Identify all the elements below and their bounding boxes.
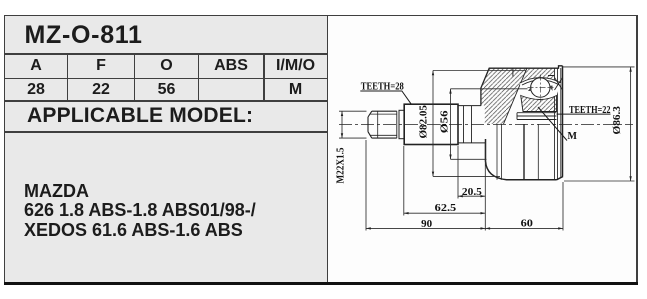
svg-text:M22X1.5: M22X1.5	[335, 148, 346, 184]
90 / 60 dim line	[366, 227, 563, 229]
centerline	[339, 123, 633, 125]
collar	[399, 110, 404, 138]
drawing panel background (right panel)	[327, 15, 637, 282]
bell face rim	[555, 68, 561, 180]
svg-text:M: M	[568, 131, 578, 142]
thread start line	[377, 111, 379, 138]
shared extension at bell back	[484, 142, 486, 231]
90 left extension	[365, 140, 367, 231]
thread minor diameter lines	[370, 114, 397, 135]
svg-text:TEETH=28: TEETH=28	[361, 81, 404, 92]
svg-text:62.5: 62.5	[435, 203, 457, 214]
svg-text:20.5: 20.5	[462, 187, 482, 198]
hatch: bell back band (between outer cone and inner sphere)	[481, 68, 527, 124]
land edge	[512, 68, 514, 76]
table column lines	[67, 53, 69, 102]
boot groove cylinder	[458, 106, 486, 143]
hatch: top band above cage / right of ball	[521, 68, 555, 95]
cage (white band around ball)	[520, 78, 561, 100]
applicable model heading	[27, 104, 253, 128]
dia 82.05 dim	[433, 71, 526, 177]
cage window wedges	[528, 86, 532, 91]
dimension & extension lines	[339, 67, 635, 231]
table background (left panel)	[4, 15, 327, 282]
dia 56 dim	[451, 89, 528, 160]
spline shaft TEETH=28	[404, 104, 458, 144]
svg-text:Ø82.05: Ø82.05	[419, 105, 430, 139]
value row	[5, 81, 67, 99]
thick bottom border	[4, 282, 638, 285]
60 right extension at bell face	[562, 182, 564, 231]
arrows	[341, 67, 632, 230]
inner sphere arc	[504, 68, 527, 124]
model list	[24, 182, 256, 241]
bell housing outer (top section half)	[481, 66, 563, 106]
M22X1.5 dim	[339, 111, 367, 138]
table internal horizontal lines	[4, 53, 327, 55]
ball	[531, 78, 550, 97]
svg-text:60: 60	[521, 218, 533, 229]
svg-text:90: 90	[421, 219, 432, 230]
thread relief groove	[397, 111, 399, 138]
circlip groove at face (cross detail)	[548, 76, 563, 91]
part number title	[25, 21, 143, 50]
bell housing outer (bottom external half)	[486, 139, 564, 180]
leader lines	[360, 91, 610, 141]
panel divider	[327, 15, 329, 282]
outer frame lines	[4, 15, 637, 16]
threaded stub M22 outline	[368, 111, 397, 138]
bell external groove lines (bottom half)	[496, 124, 498, 179]
20.5 left extension	[457, 146, 459, 199]
dia 86.3 dim	[563, 67, 635, 181]
svg-text:TEETH=22: TEETH=22	[569, 105, 611, 116]
drawing text	[335, 81, 623, 230]
spline bore TEETH=22 lines	[517, 113, 557, 120]
svg-text:Ø56: Ø56	[440, 111, 451, 134]
20.5 dim line	[458, 195, 485, 197]
inner race (hatched)	[521, 96, 557, 112]
header row	[5, 57, 67, 75]
62.5 dim line	[404, 212, 486, 214]
62.5 left extension	[403, 146, 405, 216]
svg-text:Ø86.3: Ø86.3	[611, 106, 623, 135]
